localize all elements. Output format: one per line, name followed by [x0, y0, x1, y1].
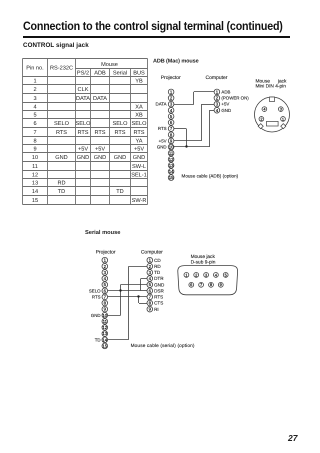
Serial computer pin 6: [147, 288, 153, 294]
svg-text:2: 2: [33, 87, 36, 93]
ADB projector pin 3: [168, 101, 174, 107]
D-sub pin 9: [218, 282, 223, 287]
Serial computer pin 7: [147, 294, 153, 300]
svg-text:SW-R: SW-R: [132, 198, 147, 204]
ADB projector pin 14: [168, 169, 174, 175]
Mini DIN pin 4: [262, 107, 267, 112]
ADB projector pin 12: [168, 156, 174, 162]
junction GND/SELO: [119, 289, 121, 291]
svg-text:ADB: ADB: [94, 70, 106, 76]
svg-text:GND: GND: [221, 108, 231, 113]
ADB projector pin 15: [168, 175, 174, 181]
wire RTS proj7 down to GND wire: [171, 128, 186, 130]
section heading: [23, 42, 89, 49]
D-sub pin 4: [214, 273, 219, 278]
ADB projector pin 9: [168, 138, 174, 144]
svg-text:4: 4: [33, 105, 36, 111]
Mini DIN pin 3: [278, 107, 283, 112]
junction RTS/GND: [185, 145, 187, 147]
svg-text:RTS: RTS: [94, 130, 105, 136]
ADB projector pin 11: [168, 150, 174, 156]
wire RTS proj7 to comp7 RTS: [105, 296, 150, 298]
svg-text:15: 15: [102, 343, 107, 348]
svg-text:Serial: Serial: [113, 69, 127, 76]
svg-text:GND: GND: [154, 282, 165, 287]
Serial computer pin 9: [147, 306, 153, 312]
svg-text:SW-L: SW-L: [132, 164, 146, 170]
svg-text:RTS: RTS: [77, 130, 88, 136]
svg-text:Mouse cable (ADB) (option): Mouse cable (ADB) (option): [182, 173, 239, 178]
svg-text:SELO: SELO: [54, 121, 70, 127]
ADB computer pin 1: [214, 89, 220, 95]
svg-text:DATA: DATA: [76, 96, 90, 102]
svg-text:RTS: RTS: [114, 130, 125, 136]
svg-text:Mini DIN 4-pin: Mini DIN 4-pin: [256, 84, 287, 90]
wire GND proj10 up to comp5 GND: [105, 315, 121, 317]
svg-text:GND: GND: [114, 155, 126, 161]
svg-text:YA: YA: [135, 139, 142, 145]
svg-text:15: 15: [32, 198, 38, 204]
svg-text:RD: RD: [57, 181, 65, 187]
svg-text:D-sub 9-pin: D-sub 9-pin: [191, 259, 216, 265]
svg-text:+5V: +5V: [95, 147, 105, 153]
Serial projector pin 8: [102, 300, 108, 306]
Serial projector pin 2: [102, 264, 108, 270]
svg-text:Projector: Projector: [96, 250, 116, 256]
svg-text:14: 14: [169, 169, 174, 174]
svg-text:GND: GND: [94, 155, 106, 161]
ADB computer pin 3: [214, 101, 220, 107]
svg-text:RTS: RTS: [92, 295, 101, 300]
Serial projector pin 4: [102, 276, 108, 282]
ADB projector pin 8: [168, 132, 174, 138]
svg-text:TD: TD: [154, 270, 161, 275]
svg-text:DSR: DSR: [154, 288, 164, 293]
CONTROL signal jack table: [23, 59, 148, 205]
wire +5V proj9 to comp3: [171, 140, 201, 142]
Serial projector pin 10: [102, 312, 108, 318]
Mini DIN pin 1: [281, 117, 286, 122]
ADB projector pin 7: [168, 126, 174, 132]
svg-text:13: 13: [169, 163, 174, 168]
svg-text:3: 3: [33, 96, 36, 102]
svg-text:ADB: ADB: [221, 90, 230, 95]
ADB projector pin 13: [168, 163, 174, 169]
Mini DIN right notch: [281, 124, 286, 129]
D-sub pin 1: [184, 273, 189, 278]
svg-text:CTS: CTS: [154, 301, 163, 306]
ADB projector pin 4: [168, 107, 174, 113]
Serial computer pin 4: [147, 276, 153, 282]
ADB computer pin 2: [214, 95, 220, 101]
svg-text:11: 11: [103, 319, 108, 324]
wire GND proj10 to comp4: [171, 146, 209, 148]
Mini DIN connector body: [255, 97, 290, 132]
svg-text:CLK: CLK: [78, 87, 89, 93]
svg-text:ADB (Mac) mouse: ADB (Mac) mouse: [153, 58, 199, 64]
svg-text:SELO: SELO: [76, 121, 92, 127]
svg-text:7: 7: [33, 130, 36, 136]
Mini DIN left notch: [258, 124, 263, 129]
svg-text:SELO: SELO: [113, 121, 129, 127]
svg-text:10: 10: [102, 313, 107, 318]
svg-text:13: 13: [32, 181, 38, 187]
Mini DIN bottom slot: [267, 121, 279, 126]
svg-text:+5V: +5V: [221, 102, 229, 107]
svg-text:Mouse jack: Mouse jack: [191, 254, 216, 260]
svg-text:3: 3: [280, 107, 282, 112]
svg-text:PS/2: PS/2: [77, 69, 89, 76]
svg-text:RTS: RTS: [56, 130, 67, 136]
svg-text:RTS: RTS: [133, 130, 144, 136]
svg-text:10: 10: [32, 155, 38, 161]
svg-text:SELO: SELO: [89, 288, 101, 293]
svg-text:XB: XB: [135, 113, 143, 119]
svg-text:TD: TD: [58, 189, 65, 195]
svg-text:10: 10: [169, 145, 174, 150]
Serial computer pin 2: [147, 264, 153, 270]
svg-text:12: 12: [102, 325, 107, 330]
page number: [288, 433, 297, 443]
svg-text:14: 14: [102, 337, 107, 342]
page title: [23, 19, 283, 33]
Mini DIN top key tab: [269, 97, 274, 101]
svg-text:GND: GND: [91, 313, 101, 318]
svg-text:GND: GND: [77, 155, 89, 161]
Serial projector pin 14: [102, 337, 108, 343]
Serial computer pin 5: [147, 282, 153, 288]
svg-text:Computer: Computer: [141, 250, 163, 256]
svg-text:11: 11: [169, 151, 174, 156]
svg-text:SELO: SELO: [132, 121, 148, 127]
D-sub pin 6: [189, 282, 194, 287]
svg-text:CD: CD: [154, 258, 161, 263]
svg-text:Serial mouse: Serial mouse: [85, 229, 120, 236]
svg-text:GND: GND: [133, 155, 145, 161]
svg-text:BUS: BUS: [133, 70, 145, 76]
D-sub pin 2: [194, 273, 199, 278]
svg-text:Mouse cable (serial) (option): Mouse cable (serial) (option): [131, 343, 195, 348]
svg-text:13: 13: [102, 331, 107, 336]
wire DATA proj3 to comp1 ADB: [171, 104, 194, 106]
ADB projector pin 2: [168, 95, 174, 101]
svg-text:15: 15: [169, 175, 174, 180]
Mini DIN pin 2: [259, 117, 264, 122]
svg-text:1: 1: [282, 116, 284, 121]
svg-text:RTS: RTS: [158, 126, 167, 131]
svg-text:RTS: RTS: [154, 295, 163, 300]
svg-text:RD: RD: [154, 264, 161, 269]
svg-text:DATA: DATA: [156, 102, 167, 107]
wire SELO proj6 to DTR/DSR bracket: [105, 290, 141, 292]
svg-text:8: 8: [33, 139, 36, 145]
ADB projector pin 1: [168, 89, 174, 95]
bracket comp4 DTR to comp6 DSR: [140, 279, 142, 291]
Serial projector pin 12: [102, 325, 108, 331]
svg-text:RS-232C: RS-232C: [50, 66, 73, 72]
svg-text:Pin no.: Pin no.: [26, 65, 44, 72]
D-sub pin 7: [199, 282, 204, 287]
svg-text:SEL-1: SEL-1: [131, 173, 147, 179]
svg-text:YB: YB: [135, 79, 143, 85]
svg-text:11: 11: [32, 164, 38, 170]
svg-text:RI: RI: [154, 307, 159, 312]
D-sub pin 8: [209, 282, 214, 287]
svg-text:+5V: +5V: [134, 147, 144, 153]
D-sub pin 5: [223, 273, 228, 278]
svg-text:2: 2: [260, 116, 262, 121]
svg-text:Projector: Projector: [161, 75, 181, 81]
Serial projector pin 1: [102, 257, 108, 263]
svg-text:TD: TD: [95, 337, 101, 342]
svg-text:GND: GND: [55, 155, 67, 161]
Serial projector pin 15: [102, 343, 108, 349]
D-sub connector body: [178, 266, 238, 295]
svg-text:14: 14: [32, 189, 38, 195]
svg-text:12: 12: [32, 173, 38, 179]
ADB projector pin 6: [168, 120, 174, 126]
Serial projector pin 7: [102, 294, 108, 300]
Serial computer pin 1: [147, 257, 153, 263]
Serial computer pin 8: [147, 300, 153, 306]
wire RTS junction down to comp8 CTS: [138, 297, 140, 303]
svg-text:5: 5: [33, 113, 36, 119]
Serial projector pin 9: [102, 306, 108, 312]
svg-text:(POWER ON): (POWER ON): [221, 96, 249, 101]
ADB projector pin 10: [168, 144, 174, 150]
Serial projector pin 6: [102, 288, 108, 294]
svg-text:TD: TD: [116, 189, 123, 195]
svg-text:DATA: DATA: [93, 96, 107, 102]
svg-text:1: 1: [33, 79, 36, 85]
svg-text:GND: GND: [157, 145, 167, 150]
svg-text:12: 12: [169, 157, 174, 162]
ADB computer pin 4: [214, 107, 220, 113]
svg-text:XA: XA: [135, 105, 143, 111]
svg-text:Computer: Computer: [206, 75, 228, 81]
Serial projector pin 5: [102, 282, 108, 288]
svg-text:+5V: +5V: [159, 138, 167, 143]
title underline rule: [23, 36, 290, 38]
svg-text:9: 9: [33, 147, 36, 153]
Serial projector pin 13: [102, 331, 108, 337]
svg-text:6: 6: [33, 121, 36, 127]
Serial projector pin 3: [102, 270, 108, 276]
svg-text:+5V: +5V: [78, 147, 88, 153]
wire TD proj14 to comp2 RD: [105, 339, 129, 341]
svg-text:Mouse: Mouse: [101, 62, 118, 68]
D-sub pin 3: [204, 273, 209, 278]
svg-text:DTR: DTR: [154, 276, 164, 281]
ADB projector pin 5: [168, 114, 174, 120]
Serial projector pin 11: [102, 319, 108, 325]
junction RTS/CTS: [137, 295, 139, 297]
Serial computer pin 3: [147, 270, 153, 276]
